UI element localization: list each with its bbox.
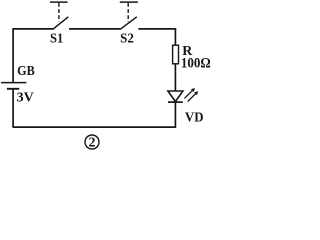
wire right vertical upper xyxy=(174,28,176,45)
wire top middle segment xyxy=(69,28,120,30)
LED VD cathode bar xyxy=(168,101,183,103)
wire left vertical upper xyxy=(12,28,14,82)
svg-text:S1: S1 xyxy=(50,30,63,46)
LED VD triangle xyxy=(168,91,183,102)
switch S1 button dashed stem xyxy=(58,3,60,22)
wire top right segment xyxy=(138,28,176,30)
switch S2 button dashed stem xyxy=(127,3,129,22)
switch S2 button bar xyxy=(120,1,138,3)
resistor R body xyxy=(173,45,179,64)
switch S1 lever xyxy=(53,17,69,30)
LED arrow 1 xyxy=(184,88,195,98)
svg-text:S2: S2 xyxy=(120,30,134,46)
battery GB short plate xyxy=(7,88,19,90)
svg-text:3V: 3V xyxy=(17,90,34,105)
svg-text:100Ω: 100Ω xyxy=(181,54,211,71)
switch S1 button bar xyxy=(50,1,68,3)
wire right vertical middle xyxy=(174,64,176,91)
wire right vertical lower xyxy=(174,102,176,128)
wire top-left segment xyxy=(13,28,53,30)
svg-text:2: 2 xyxy=(89,136,96,151)
svg-text:GB: GB xyxy=(17,62,35,78)
battery GB long plate xyxy=(1,82,26,84)
wire left vertical lower xyxy=(12,89,14,128)
switch S2 lever xyxy=(120,17,137,30)
figure number circle 2 xyxy=(85,135,99,151)
LED arrow 2 xyxy=(188,91,199,101)
svg-text:VD: VD xyxy=(185,109,204,125)
wire bottom xyxy=(13,126,177,128)
